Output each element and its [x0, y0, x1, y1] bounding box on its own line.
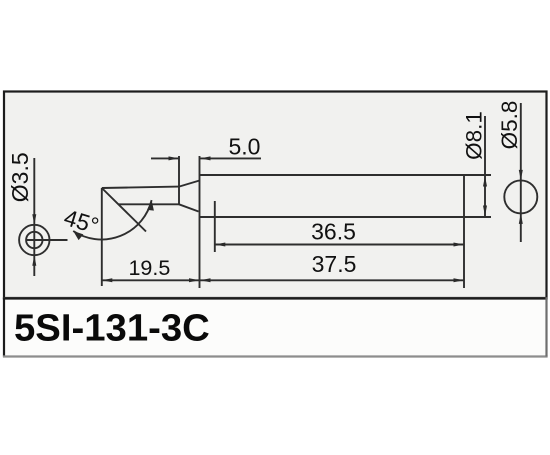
- extension line apex x=102: [101, 188, 103, 286]
- dimension line 36.5: [215, 244, 464, 246]
- arrowhead arc top end pointing up: [147, 200, 154, 211]
- tick shaft top extended: [464, 174, 491, 176]
- extension line x=179: [178, 156, 180, 204]
- title box top border / divider: [3, 297, 548, 299]
- dimension line 19.5: [102, 279, 200, 281]
- node Ø3.5 circle inner: [26, 232, 42, 248]
- extension line / shaft right end x=464: [463, 175, 465, 288]
- arrowhead dia8.1 top pointing up: [483, 176, 487, 187]
- extension line / shaft end cap x=199.5: [199, 156, 201, 288]
- cone flare bottom: [179, 204, 199, 211]
- 45 degree arc: [73, 200, 151, 239]
- title box: [3, 297, 548, 357]
- svg-text:Ø5.8: Ø5.8: [497, 101, 522, 150]
- dimension line 37.5: [200, 279, 465, 281]
- dimension line 5.0 right segment: [200, 157, 262, 159]
- dimension line Ø8.1 vertical: [484, 116, 486, 216]
- arrowhead arc left end pointing left-up: [73, 231, 83, 240]
- extension line x=215: [214, 201, 216, 252]
- drawing panel: [4, 92, 547, 299]
- wire Ø3.5 horizontal crosshair: [26, 239, 68, 241]
- arrowhead 37.5 left pointing left: [200, 278, 211, 282]
- bevel diagonal 45deg: [102, 188, 146, 232]
- svg-text:36.5: 36.5: [311, 219, 356, 245]
- node Ø3.5 circle outer: [19, 225, 49, 255]
- arrowhead dia5.8 top pointing down: [519, 170, 523, 181]
- svg-text:37.5: 37.5: [312, 251, 357, 277]
- arrowhead dia8.1 bottom pointing down: [483, 206, 487, 217]
- arrowhead dia3.5 bottom pointing up: [32, 255, 36, 266]
- arrowhead 5.0 right pointing left: [200, 156, 211, 160]
- wire Ø3.5 vertical leader: [33, 158, 35, 276]
- shaft bottom edge: [200, 216, 465, 218]
- dimension line 5.0 left segment: [151, 157, 179, 159]
- arrowhead 37.5 right pointing right: [454, 278, 465, 282]
- tick shaft bottom extended: [464, 216, 491, 218]
- shaft top edge: [200, 174, 465, 176]
- cone flare top: [179, 181, 200, 187]
- tip top edge: [102, 187, 179, 188]
- svg-text:Ø3.5: Ø3.5: [7, 152, 33, 202]
- tip bottom edge: [119, 203, 180, 205]
- svg-text:19.5: 19.5: [128, 256, 170, 280]
- svg-text:5SI-131-3C: 5SI-131-3C: [14, 307, 210, 350]
- arrowhead dia3.5 top pointing down: [32, 214, 36, 225]
- title box right border: [545, 297, 547, 356]
- arrowhead 5.0 left pointing right: [169, 156, 180, 160]
- arrowhead dia5.8 bottom pointing up: [519, 213, 523, 224]
- arrowhead 19.5 left pointing left: [102, 278, 113, 282]
- arrowhead 36.5 left pointing left: [215, 243, 226, 247]
- arrowhead 36.5 right pointing right: [454, 243, 465, 247]
- svg-text:Ø8.1: Ø8.1: [461, 111, 486, 160]
- circle Ø5.8 section view: [504, 180, 537, 213]
- svg-text:5.0: 5.0: [229, 134, 261, 160]
- dimension line Ø5.8 vertical: [520, 103, 522, 242]
- title box bottom border: [3, 355, 548, 357]
- title box left border: [3, 297, 5, 356]
- arrowhead 19.5 right pointing right: [189, 278, 200, 282]
